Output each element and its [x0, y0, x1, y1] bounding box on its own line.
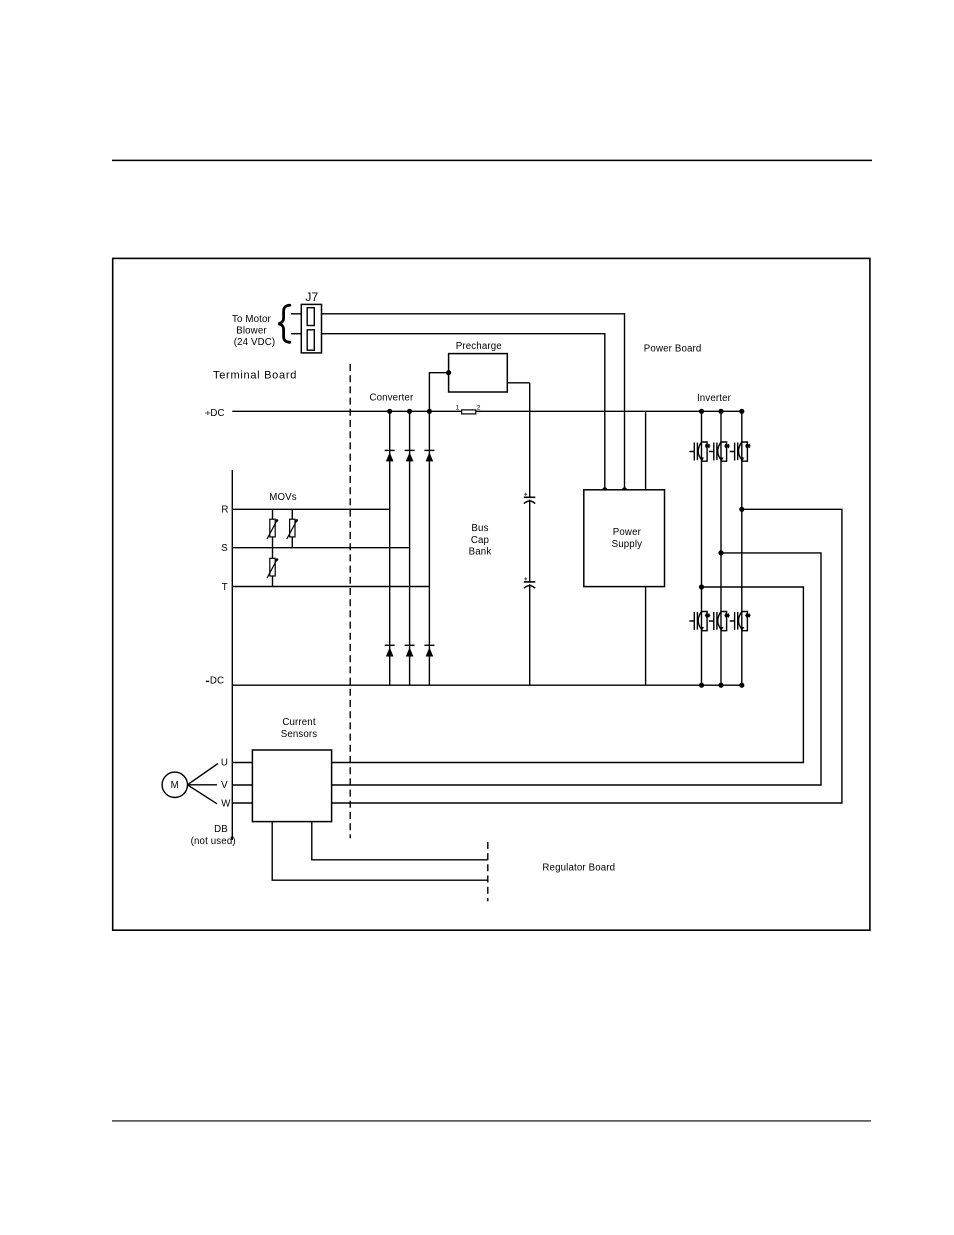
junction: inverter leg 2 at -DC — [718, 683, 723, 688]
wire: +DC to power supply — [645, 411, 647, 490]
IGBT Q6 (bottom leg 3) — [730, 611, 751, 631]
junction: converter leg 1 at +DC — [387, 409, 392, 414]
label: DB (not used) — [191, 824, 236, 847]
svg-text:To Motor: To Motor — [232, 314, 272, 325]
svg-text:M: M — [171, 780, 179, 791]
svg-text:2: 2 — [477, 404, 481, 411]
svg-text:Sensors: Sensors — [281, 729, 318, 740]
power supply U10 — [584, 490, 665, 587]
svg-text:(24 VDC): (24 VDC) — [234, 337, 276, 348]
junction: inverter leg 1 at +DC — [699, 409, 704, 414]
wire: phase V (inverter to sensors) — [332, 553, 821, 785]
wire: precharge output to bus — [507, 382, 529, 384]
wire: current sensor output 2 to regulator — [272, 822, 488, 881]
svg-text:MOVs: MOVs — [269, 492, 297, 503]
svg-text:Converter: Converter — [369, 393, 414, 404]
IGBT Q5 (top leg 3) — [730, 441, 751, 461]
converter leg 2 wire — [409, 411, 411, 685]
svg-text:Cap: Cap — [471, 535, 489, 546]
junction: inverter leg 2 at +DC — [718, 409, 723, 414]
diode D5 (lower leg 2) — [405, 645, 415, 656]
wire: bus cap bank leg — [529, 383, 531, 685]
wire: motor to W — [187, 785, 217, 804]
junction: inverter leg 3 at +DC — [739, 409, 744, 414]
net +DC — [205, 408, 742, 419]
svg-text:1: 1 — [456, 404, 460, 411]
svg-text:Blower: Blower — [236, 326, 267, 337]
inverter leg 3 wire — [741, 411, 743, 685]
junction: converter leg 3 / precharge at +DC — [427, 409, 432, 414]
wire: terminal board bus — [231, 470, 233, 840]
net -DC — [206, 676, 742, 687]
IGBT Q2 (bottom leg 1) — [689, 611, 710, 631]
svg-text:Terminal Board: Terminal Board — [213, 370, 297, 382]
MOV ST — [267, 548, 278, 587]
converter leg 3 wire — [428, 411, 430, 685]
diode D1 (upper leg 1) — [385, 450, 395, 461]
svg-text:U: U — [221, 758, 228, 769]
label: To Motor Blower (24 VDC) with brace — [232, 305, 290, 348]
wire: phase W (inverter to sensors) — [332, 509, 842, 803]
inverter leg 2 wire — [720, 411, 722, 685]
MOV RS-2 — [287, 509, 298, 547]
junction: converter leg 2 at +DC — [407, 409, 412, 414]
svg-text:S: S — [221, 543, 228, 554]
svg-text:W: W — [221, 799, 231, 810]
connector J7 — [301, 290, 321, 353]
current sensors box — [252, 750, 331, 822]
wire: motor to U — [187, 764, 218, 785]
IGBT Q3 (top leg 2) — [709, 441, 730, 461]
junction: phase W tap — [739, 507, 744, 512]
wire: phase U (inverter to sensors) — [332, 587, 804, 763]
junction: inverter leg 1 at -DC — [699, 683, 704, 688]
svg-text:DC: DC — [210, 408, 224, 419]
wire: current sensor output 1 to regulator — [312, 822, 488, 860]
svg-text:J7: J7 — [305, 290, 318, 304]
capacitor C2 (bus cap lower) — [524, 577, 536, 588]
wire: +DC to precharge input — [429, 373, 448, 412]
wire: J7 pin 2 stub — [291, 333, 301, 335]
IGBT Q1 (top leg 1) — [689, 441, 710, 461]
precharge box — [449, 341, 508, 392]
junction: phase V tap — [718, 550, 723, 555]
dashed boundary: Terminal Board / Power Board — [349, 364, 351, 838]
label: Current Sensors — [281, 717, 318, 740]
net S — [221, 543, 409, 554]
diode D2 (upper leg 2) — [405, 450, 415, 461]
diode D6 (lower leg 3) — [424, 645, 434, 656]
label: Bus Cap Bank — [469, 523, 492, 558]
svg-text:Bank: Bank — [469, 547, 492, 558]
junction: precharge input — [446, 370, 451, 375]
svg-text:Power Board: Power Board — [644, 344, 702, 355]
capacitor C1 (bus cap upper) — [524, 493, 536, 504]
diode D3 (upper leg 3) — [424, 450, 434, 461]
junction: inverter leg 3 at -DC — [739, 683, 744, 688]
dashed boundary: Regulator Board — [487, 842, 489, 902]
svg-text:Supply: Supply — [612, 539, 643, 550]
wire: J7 pin 1 to Power Supply — [322, 314, 625, 490]
svg-text:Precharge: Precharge — [456, 341, 502, 352]
svg-text:R: R — [221, 504, 228, 515]
net V — [221, 780, 252, 791]
diode D4 (lower leg 1) — [385, 645, 395, 656]
svg-text:Power: Power — [613, 527, 642, 538]
wire: J7 pin 2 to Power Supply — [322, 334, 605, 490]
net W — [221, 799, 252, 810]
junction: phase U tap — [699, 584, 704, 589]
inverter leg 1 wire — [701, 411, 703, 685]
wire: J7 pin 1 stub — [291, 313, 301, 315]
svg-text:V: V — [221, 780, 228, 791]
MOV RS-1 — [267, 509, 278, 547]
resistor precharge 1-2 — [456, 404, 481, 414]
wire: power supply to -DC — [645, 587, 647, 686]
junction: J7 wire 2 at Power Supply — [602, 487, 607, 492]
svg-text:T: T — [222, 582, 228, 593]
svg-text:Inverter: Inverter — [697, 393, 732, 404]
wire: motor to V — [187, 784, 217, 786]
net R — [221, 504, 389, 515]
junction: J7 wire 1 at Power Supply — [622, 487, 627, 492]
net U — [221, 758, 253, 769]
converter leg 1 wire — [389, 411, 391, 685]
IGBT Q4 (bottom leg 2) — [709, 611, 730, 631]
svg-text:DB: DB — [214, 824, 228, 835]
svg-text:Bus: Bus — [471, 523, 488, 534]
motor M — [162, 772, 187, 797]
svg-text:DC: DC — [210, 676, 224, 687]
svg-text:(not used): (not used) — [191, 836, 236, 847]
svg-text:Regulator Board: Regulator Board — [542, 862, 615, 873]
svg-text:Current: Current — [282, 717, 316, 728]
net T — [222, 582, 430, 593]
